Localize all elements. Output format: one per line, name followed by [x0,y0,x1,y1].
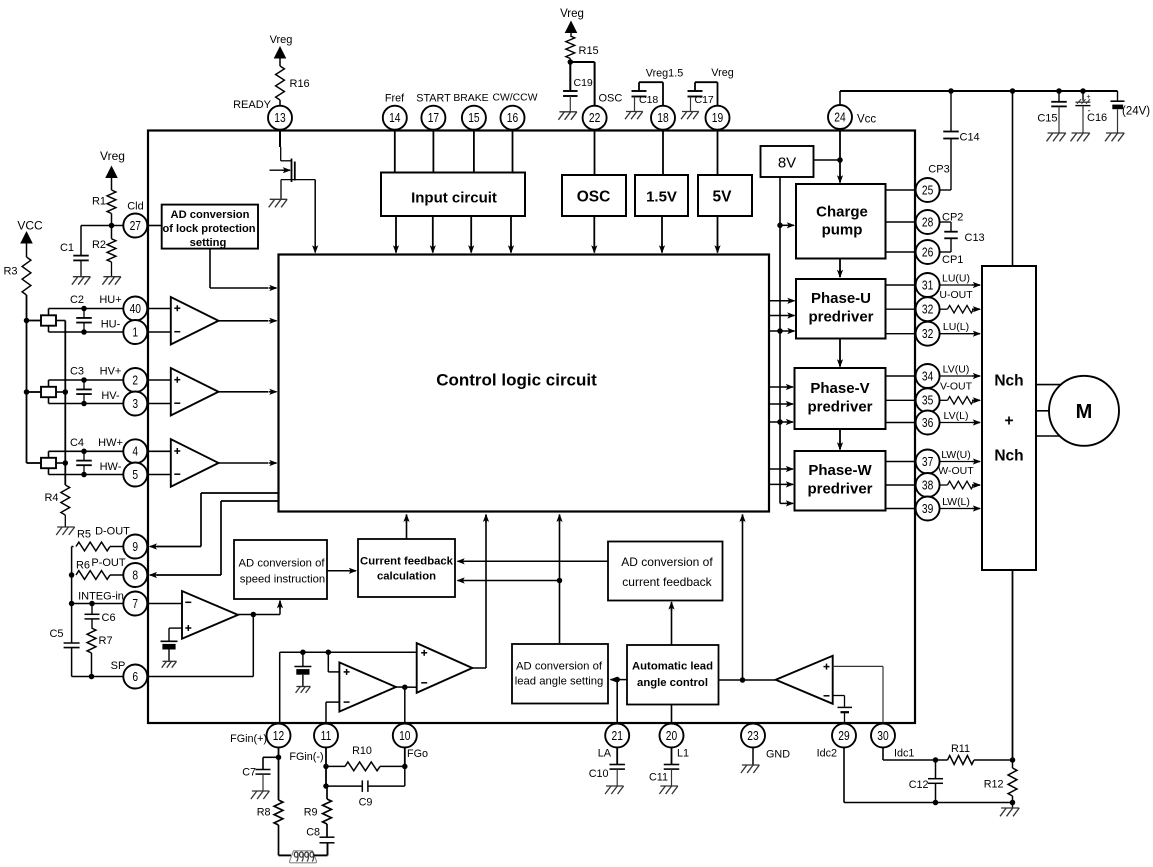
svg-text:25: 25 [922,184,933,197]
svg-text:VCC: VCC [17,219,43,233]
label (24V) [1122,106,1150,118]
wire bias to hall2 [27,391,42,393]
label C16 [1087,112,1107,124]
node junction C9 [323,783,329,789]
wire pin to input circuit [432,130,434,173]
svg-text:C18: C18 [639,94,658,106]
svg-text:W-OUT: W-OUT [938,465,974,477]
wire predriver to pin 32 [886,333,916,335]
pin 17 START [421,106,445,130]
wire junction to C1 [81,226,112,256]
pin label CW/CCW [492,93,537,104]
pin 6 SP [123,665,147,689]
wire pin 38 to Nch with sense resistor [940,481,981,489]
wire U5 - to pin11 [326,702,339,723]
svg-text:32: 32 [922,304,933,317]
node junction U5 output [402,684,408,690]
svg-text:of lock protection: of lock protection [162,223,255,235]
ground (below battery) [1105,133,1124,141]
node junction C2 top [81,306,87,312]
label C8 [306,827,320,839]
svg-text:35: 35 [922,395,933,408]
net Vreg label (R1 branch) [100,149,125,163]
svg-text:R11: R11 [951,743,970,755]
wire comparator U2 output [219,389,278,395]
svg-text:Input circuit: Input circuit [411,190,497,207]
label C10 [589,768,609,780]
block Automatic lead angle control [627,645,719,705]
pin label SP [111,660,126,672]
pin label HU- [101,319,121,331]
label R16 [290,78,310,90]
wire auto lead to lead angle setting [610,677,628,683]
wire R8 to coil [279,854,292,856]
node junction C12 top [933,757,939,763]
wire input circuit to control logic [393,216,399,254]
capacitor C16 (electrolytic) [1075,91,1090,133]
battery (24V) [1111,91,1125,133]
block 5V [698,175,752,216]
pin label BRAKE [453,93,488,104]
block 8V regulator [761,146,814,177]
wire pin to input circuit [473,130,475,173]
resistor R5 [72,542,124,551]
svg-text:23: 23 [747,730,758,743]
wire C17 to pin19 [695,82,718,106]
capacitor C8 [320,837,335,843]
pin label FGo [407,748,428,760]
wire left feedback bus [71,547,73,644]
pin 31 LU(U) [916,273,940,297]
svg-text:speed instruction: speed instruction [240,574,325,586]
svg-text:4: 4 [132,446,138,459]
svg-text:V-OUT: V-OUT [940,380,973,392]
pin 20 L1 [660,724,684,748]
wire hall1 - output [49,326,124,332]
pin label INTEG-in [78,591,124,603]
pin label FGin(-) [289,751,323,763]
op-amp U4 (speed integrator) [182,591,238,639]
pin label HW+ [98,437,123,449]
wire pin10 stub [404,748,406,767]
svg-text:Charge: Charge [816,204,868,221]
ground (below C10) [605,786,624,794]
svg-text:31: 31 [922,279,933,292]
wire U6 output to control logic [472,514,489,668]
pin 5 HW- [123,463,147,487]
svg-text:C2: C2 [70,294,84,306]
wire predriver to pin 36 [886,422,916,424]
power arrow Vreg (R1 branch) [105,166,118,191]
svg-text:16: 16 [507,112,518,125]
svg-text:R15: R15 [579,45,599,57]
wire pin13 to MOSFET source [280,130,292,161]
wire lock box to control logic [210,249,278,292]
wire hall3 + output [49,451,124,458]
block AD conversion of speed instruction [234,540,327,599]
block OSC [562,175,626,216]
ground (below R2) [102,277,121,285]
wire R15 junction to pin22 [570,62,594,106]
wire pin 32 to Nch [940,331,981,337]
svg-text:R1: R1 [92,196,106,208]
ground (below C11) [659,786,678,794]
power arrow Vreg (R16 branch) [274,46,287,66]
resistor R9 [323,786,332,837]
svg-text:angle control: angle control [637,677,708,689]
svg-text:5V: 5V [713,189,733,206]
svg-text:OSC: OSC [577,189,611,206]
capacitor C5 [64,643,80,677]
pin 4 HW+ [123,439,147,463]
net VCC label [17,219,43,233]
resistor R8 [274,757,283,855]
wire hall2 + output [49,380,124,387]
svg-text:34: 34 [922,370,934,383]
svg-text:22: 22 [589,112,600,125]
svg-text:18: 18 [657,112,668,125]
label CP2 [942,212,963,224]
wire U4 output [238,614,280,616]
svg-text:C12: C12 [909,779,929,791]
svg-text:8: 8 [132,569,138,582]
svg-text:11: 11 [321,730,332,743]
svg-text:1.5V: 1.5V [646,189,677,206]
svg-text:R4: R4 [44,492,58,504]
svg-text:R10: R10 [352,745,372,757]
wire U4 + to reference [169,628,182,641]
pin label P-OUT [91,557,126,569]
svg-text:26: 26 [922,246,933,259]
block AD conversion of lead angle setting [512,644,608,704]
capacitor C15 [1051,91,1067,133]
wire U7 + to pin30 [833,666,883,723]
label R10 [352,745,372,757]
node junction C4 top [81,449,87,455]
label R1 [92,196,106,208]
wire pin to input circuit [512,130,514,173]
label C18 [639,94,658,106]
node junction C12 bottom [933,800,939,806]
node junction R6 bus [69,572,75,578]
node junction C15 rail [1056,88,1062,94]
svg-text:12: 12 [273,730,284,743]
svg-text:Current feedback: Current feedback [360,556,454,568]
node junction hall3 return [63,460,69,466]
node junction hall2 bias [24,389,30,395]
svg-text:R16: R16 [290,78,310,90]
wire bias to hall1 [27,320,42,322]
capacitor C9 [326,766,405,792]
pin 7 INTEG-in [123,592,147,616]
svg-text:+: + [1004,413,1013,430]
svg-text:15: 15 [468,112,479,125]
node junction U5 + riser [326,649,332,655]
svg-text:C3: C3 [70,366,84,378]
wire pin to comparator U1 - [147,331,171,333]
svg-text:C14: C14 [960,132,980,144]
label U-OUT [939,289,973,301]
wire U4 output to speed box [277,600,283,615]
node junction U4 output [251,612,256,618]
label W-OUT [938,465,974,477]
pin 26 CP1 [916,240,940,264]
wire 8V rail to charge pump [780,222,795,228]
wire lead angle setting to control logic [556,514,562,643]
svg-text:37: 37 [922,456,933,469]
svg-text:GND: GND [766,749,790,761]
wire comparator U1 output [219,318,278,324]
wire control logic to phase-W input [769,466,794,472]
pin 1 HU- [123,320,147,344]
wire hall2 to common return [56,391,65,393]
ground (below C17) [681,112,699,120]
wire predriver to pin 37 [886,461,916,463]
svg-text:2: 2 [132,374,138,387]
node junction 8V rail row6 [777,419,783,425]
pin 37 LW(U) [916,450,940,474]
label C4 [70,437,84,449]
motor M [1049,376,1119,446]
svg-text:BRAKE: BRAKE [453,93,488,104]
pin 25 CP3 [916,178,940,202]
svg-text:+: + [1086,94,1090,101]
hall element H3 [41,458,56,468]
node junction C6 riser [89,601,95,607]
svg-text:C9: C9 [359,797,373,809]
wire control logic to phase-U input [769,298,796,304]
svg-text:CP1: CP1 [942,254,963,266]
svg-text:Idc2: Idc2 [817,748,837,760]
pin label READY [233,99,272,111]
wire pin to comparator U2 + [147,379,171,381]
svg-text:1: 1 [132,326,138,339]
wire pin11 stub [325,748,327,787]
svg-text:C7: C7 [242,767,256,779]
pin label GND [766,749,790,761]
svg-text:OSC: OSC [599,93,623,105]
net Vreg1.5 label [646,68,683,80]
wire pin24 into IC [837,130,843,184]
pin 22 OSC [583,106,607,130]
wire phase-U to phase-V [837,339,843,368]
label R6 [76,560,90,572]
svg-text:38: 38 [922,479,933,492]
wire OSC block to control logic [591,216,597,254]
hall element H2 [41,387,56,397]
pin label Fref [385,93,405,105]
svg-text:40: 40 [130,303,141,316]
offset source (U7 -) [838,707,853,723]
wire speed box to calculation box [327,568,357,574]
wire U4 output to SP [147,615,253,677]
wire charge pump to pin28 [886,221,916,223]
svg-text:predriver: predriver [808,309,873,326]
net Vreg label (C17 branch) [711,67,733,79]
svg-text:C8: C8 [306,827,320,839]
svg-text:FGo: FGo [407,748,428,760]
capacitor C1 [73,256,89,277]
wire charge pump to pin25 [886,189,916,191]
label C9 [359,797,373,809]
svg-text:setting: setting [190,237,227,249]
wire Q1 source to ground [280,180,282,200]
label LU(L) [943,321,969,333]
pin 14 Fref [383,106,407,130]
svg-text:Nch: Nch [994,373,1023,390]
label C2 [70,294,84,306]
wire charge pump to pin26 [886,251,916,253]
pin 8 P-OUT [123,563,147,587]
ground (below C1) [72,277,91,285]
svg-text:C17: C17 [695,94,714,106]
svg-text:AD conversion of: AD conversion of [238,558,325,570]
svg-text:CW/CCW: CW/CCW [492,93,537,104]
svg-text:C16: C16 [1087,112,1107,124]
label LU(U) [942,273,970,285]
svg-text:R3: R3 [3,266,17,278]
block AD conversion of current feedback [608,542,723,601]
svg-text:READY: READY [233,99,272,111]
pin label Idc1 [894,748,914,760]
ground (below R12) [1000,808,1019,816]
label LW(L) [942,496,970,508]
pin 10 FGo [393,724,417,748]
node junction FG reference [300,649,306,655]
wire 1.5V block to control logic [659,216,665,254]
pin label Idc2 [817,748,837,760]
wire pin 36 to Nch [940,419,981,425]
svg-text:HW-: HW- [100,461,122,473]
svg-text:FGin(+): FGin(+) [230,733,267,745]
wire hall1 to common return [56,320,65,322]
svg-text:R12: R12 [984,779,1004,791]
wire input circuit to control logic [508,216,514,254]
label C14 [960,132,980,144]
node junction C3 top [81,377,87,383]
op-amp U6 (FG schmitt) [417,643,473,693]
wire U5 output to U6 - [396,686,417,688]
svg-text:14: 14 [389,112,401,125]
wire pin to comparator U3 + [147,450,171,452]
svg-text:Vreg: Vreg [100,149,125,163]
inductor FG coil [289,851,316,863]
node junction 8V rail row3 [777,328,783,334]
wire top supply rail [840,90,1118,92]
svg-text:C10: C10 [589,768,609,780]
wire bias to hall3 [27,462,42,464]
wire 8V rail down [779,177,781,503]
ground (below C16) [1071,133,1090,141]
pin label L1 [677,748,689,760]
svg-text:21: 21 [611,730,622,743]
block Charge pump [796,184,886,259]
wire pin23 to ground [752,748,754,766]
capacitor C12 [928,760,943,803]
wire pin to comparator U2 - [147,403,171,405]
pin 11 FGin(-) [314,724,338,748]
capacitor C11 [664,765,680,787]
svg-text:predriver: predriver [807,399,872,416]
node junction INTEG bus [69,601,75,607]
svg-text:Vreg: Vreg [711,67,733,79]
pin 30 Idc1 [871,724,895,748]
pin label HU+ [99,294,121,306]
capacitor C6 [85,604,100,629]
wire pin 35 to Nch with sense resistor [940,397,981,405]
wire pin 32 to Nch with sense resistor [940,305,981,313]
svg-text:C13: C13 [965,232,985,244]
label C13 [965,232,985,244]
op-amp U5 (FG amp) [339,662,396,711]
svg-text:pump: pump [822,222,863,239]
wire C18 to pin18 [639,82,663,106]
resistor R4 [61,485,70,527]
svg-text:HW+: HW+ [98,437,123,449]
wire Nch to motor U [1036,384,1061,386]
wire U7 output to auto lead box [719,679,743,681]
svg-text:10: 10 [399,730,410,743]
wire control logic to P-OUT [149,501,279,578]
svg-text:C19: C19 [574,77,593,89]
label C15 [1037,113,1057,125]
svg-text:Phase-U: Phase-U [811,290,871,307]
pin 21 LA [605,724,629,748]
svg-text:Vreg: Vreg [560,8,584,20]
wire 5V block to control logic [714,216,720,254]
wire coil to C8 [314,843,328,856]
svg-text:LU(L): LU(L) [943,321,969,333]
pin 38 W-OUT [916,473,940,497]
label R7 [99,635,113,647]
resistor R11 [936,756,1013,765]
wire U5 + input [328,652,339,672]
wire pin to comparator U3 - [147,474,171,476]
label R9 [304,807,318,819]
label C11 [649,772,668,784]
svg-text:Phase-V: Phase-V [810,380,869,397]
op-amp U2 (hall comparator) [171,368,219,416]
resistor R12 [1008,760,1017,803]
wire hall2 - output [49,397,124,403]
wire pin20 to auto lead box [671,705,673,723]
pin 32 LU(L) [916,322,940,346]
node junction pin10/R10 [402,764,408,770]
wire U7 output [743,679,776,681]
svg-text:29: 29 [838,730,849,743]
node junction pin24/8V [837,157,843,163]
svg-text:HV-: HV- [101,390,120,402]
wire C14 to pin25 [940,189,951,191]
svg-text:LU(U): LU(U) [942,273,970,285]
pin 9 D-OUT [123,535,147,559]
svg-text:LW(U): LW(U) [941,449,971,461]
svg-text:HU+: HU+ [99,294,121,306]
capacitor C4 [76,451,92,474]
label LV(L) [944,410,969,422]
ground (pin 23) [741,765,760,773]
svg-text:27: 27 [130,220,141,233]
pin 40 HU+ [123,297,147,321]
wire hall3 to common return [56,462,65,464]
wire predriver to pin 31 [886,284,916,286]
ground (below C19) [558,112,577,120]
node junction R1/R2/C1/pin27 [109,223,115,229]
resistor R3 [22,257,31,463]
wire lead riser to calculation box [457,577,560,583]
svg-text:P-OUT: P-OUT [91,557,126,569]
wire pin19 to 5V block [717,130,719,175]
